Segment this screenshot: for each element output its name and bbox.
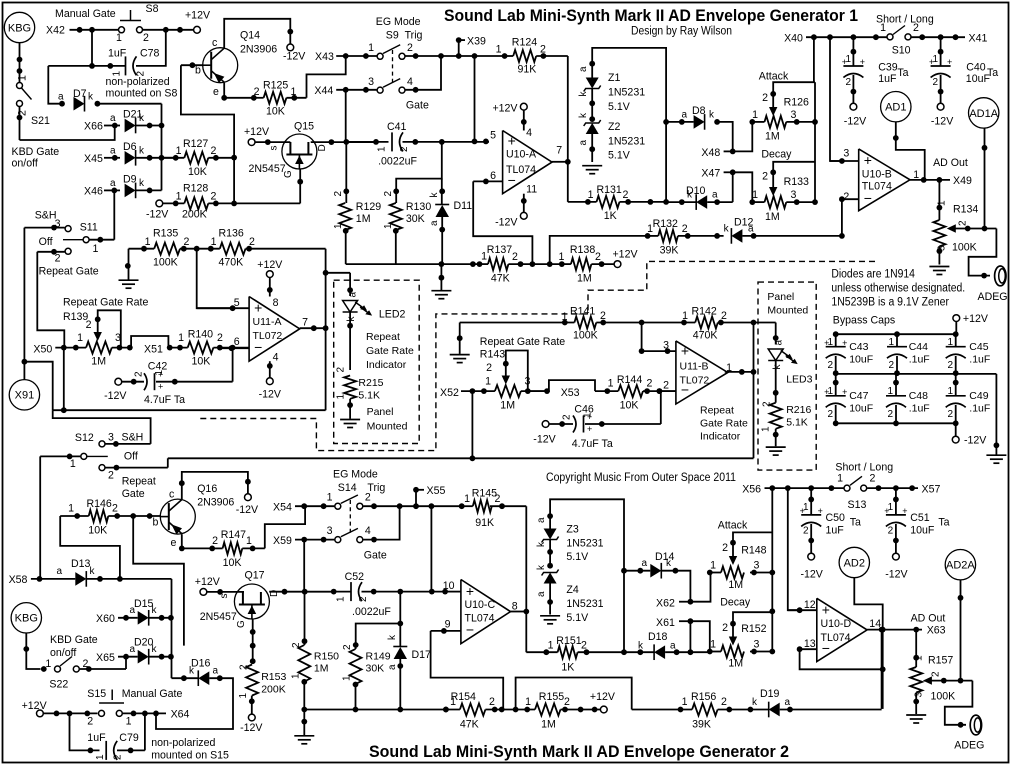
svg-text:Ta: Ta	[897, 67, 908, 79]
svg-text:+12V: +12V	[195, 576, 221, 588]
svg-text:non-polarized: non-polarized	[151, 737, 215, 749]
svg-text:100K: 100K	[931, 691, 956, 703]
wire Q14 collector to -12V	[224, 19, 290, 48]
capacitor C48 .1uF	[895, 374, 897, 396]
svg-text:R125: R125	[263, 80, 288, 92]
svg-text:1: 1	[95, 754, 106, 760]
svg-text:+: +	[254, 299, 262, 315]
capacitor C50 1uF Ta	[810, 488, 812, 515]
svg-text:KBG: KBG	[8, 22, 31, 34]
svg-text:ADEG: ADEG	[978, 291, 1008, 303]
svg-text:C40: C40	[966, 62, 986, 74]
svg-text:1N5231: 1N5231	[566, 538, 603, 550]
svg-text:+: +	[824, 387, 829, 397]
S9 dashed link	[392, 50, 394, 84]
capacitor C43 10uF	[835, 334, 837, 347]
svg-text:1M: 1M	[577, 272, 592, 284]
svg-text:Diodes are 1N914: Diodes are 1N914	[831, 269, 915, 281]
svg-text:2: 2	[358, 596, 369, 602]
svg-text:D17: D17	[412, 649, 432, 661]
svg-text:R157: R157	[928, 655, 953, 667]
svg-text:Copyright Music From Outer Spa: Copyright Music From Outer Space 2011	[546, 472, 736, 484]
svg-text:D6: D6	[123, 141, 137, 153]
svg-text:1: 1	[752, 109, 758, 121]
svg-text:AD2A: AD2A	[946, 560, 975, 572]
svg-text:D8: D8	[692, 105, 706, 117]
ground (R150 bus)	[294, 735, 314, 737]
svg-text:10K: 10K	[88, 525, 107, 537]
pin1 wire (U11-B)	[725, 371, 754, 373]
svg-text:X43: X43	[315, 51, 334, 63]
svg-text:+: +	[681, 342, 689, 358]
svg-text:R151: R151	[556, 635, 581, 647]
svg-text:R140: R140	[188, 329, 213, 341]
svg-text:1M: 1M	[728, 579, 743, 591]
svg-text:U10-C: U10-C	[465, 599, 496, 611]
svg-text:R131: R131	[597, 184, 622, 196]
terminal -12V (Q14)	[287, 44, 294, 51]
svg-text:7: 7	[556, 145, 562, 157]
svg-text:1: 1	[608, 378, 614, 390]
wire X43 net down to pin5	[474, 56, 476, 141]
wire R147 to X54 row	[265, 506, 305, 548]
resistor R141 100K	[459, 323, 461, 339]
svg-text:1M: 1M	[728, 658, 743, 670]
svg-text:Ta: Ta	[850, 517, 861, 529]
svg-text:+12V: +12V	[590, 691, 616, 703]
svg-text:R130: R130	[406, 201, 431, 213]
svg-text:+12V: +12V	[244, 126, 270, 138]
svg-text:AD1: AD1	[885, 102, 906, 114]
svg-text:1: 1	[548, 640, 554, 652]
svg-text:10uF: 10uF	[849, 354, 873, 366]
svg-text:C49: C49	[969, 390, 988, 402]
wire D8 k to X48	[717, 122, 733, 151]
wire X47 down to D10	[732, 172, 734, 202]
svg-text:X44: X44	[314, 85, 333, 97]
svg-text:3: 3	[791, 109, 797, 121]
switch S9 pole 3-4	[377, 87, 383, 93]
wire X40 down to attack rail	[813, 37, 815, 82]
svg-text:3: 3	[525, 376, 531, 388]
svg-text:1N5239B is a 9.1V Zener: 1N5239B is a 9.1V Zener	[831, 297, 949, 309]
wire R149 top bracket	[356, 624, 401, 646]
wire AD2 to output	[854, 578, 882, 709]
svg-text:2: 2	[254, 86, 260, 98]
svg-text:Off: Off	[124, 451, 138, 463]
svg-text:R215: R215	[358, 377, 383, 389]
wire Q16 collector to -12V	[182, 472, 248, 499]
svg-text:12: 12	[804, 599, 816, 611]
svg-text:10uF: 10uF	[910, 525, 935, 537]
svg-text:.1uF: .1uF	[969, 354, 990, 366]
svg-text:2: 2	[721, 696, 727, 708]
svg-text:-12V: -12V	[259, 389, 282, 401]
svg-text:Gate Rate: Gate Rate	[366, 345, 414, 357]
svg-text:2: 2	[112, 503, 118, 515]
jack ADEG (EG2)	[970, 715, 981, 735]
wire S12 S&H branch	[53, 410, 151, 444]
svg-text:4.7uF Ta: 4.7uF Ta	[144, 394, 185, 406]
node X39	[458, 40, 460, 56]
wire R135/R136 node to pin5 (U11-A)	[197, 249, 233, 309]
dashed panel path EG1	[200, 261, 875, 450]
svg-text:1: 1	[837, 473, 843, 485]
svg-text:X66: X66	[84, 121, 103, 133]
svg-text:R155: R155	[539, 691, 564, 703]
svg-text:1: 1	[336, 596, 347, 602]
svg-text:c: c	[169, 489, 175, 501]
wire S14 pin4 up to trig row	[363, 506, 399, 539]
switch S9 pole 1-2	[377, 53, 383, 59]
svg-text:1: 1	[880, 22, 886, 34]
svg-text:Short / Long: Short / Long	[835, 462, 893, 474]
svg-text:1: 1	[333, 223, 344, 229]
ground (R157)	[906, 714, 926, 716]
svg-text:S14: S14	[338, 482, 357, 494]
svg-text:X60: X60	[96, 613, 115, 625]
svg-text:39K: 39K	[660, 244, 679, 256]
svg-text:2: 2	[762, 92, 768, 104]
svg-text:X39: X39	[467, 35, 486, 47]
svg-text:1: 1	[558, 251, 564, 263]
svg-text:4: 4	[365, 525, 371, 537]
svg-text:C50: C50	[826, 512, 846, 524]
feedback row segment B (EG2)	[632, 709, 692, 711]
svg-text:C47: C47	[849, 390, 868, 402]
svg-text:.1uF: .1uF	[909, 403, 930, 415]
svg-text:Gate: Gate	[364, 550, 387, 562]
svg-text:C45: C45	[969, 341, 988, 353]
svg-text:X62: X62	[656, 598, 675, 610]
svg-text:2: 2	[762, 171, 768, 183]
svg-text:3: 3	[914, 692, 925, 698]
wire D7 k to cathode rail	[97, 103, 161, 105]
capacitor C40 10uF Ta	[940, 37, 942, 66]
svg-text:Panel: Panel	[367, 406, 394, 418]
wire S11 pin2 to X50	[37, 252, 64, 348]
wire to D7	[48, 66, 62, 104]
wire D16 to X64	[156, 678, 233, 729]
wire S22 pin2 to X65	[125, 657, 127, 669]
diode D16	[172, 677, 199, 679]
svg-text:Q17: Q17	[245, 570, 265, 582]
svg-text:S11: S11	[80, 222, 98, 234]
svg-text:.1uF: .1uF	[969, 403, 990, 415]
wire Q17 drain row	[269, 591, 334, 593]
svg-text:e: e	[213, 86, 219, 98]
svg-text:1: 1	[291, 673, 302, 679]
svg-text:2: 2	[647, 378, 653, 390]
svg-text:R135: R135	[153, 228, 178, 240]
svg-text:X55: X55	[427, 485, 446, 497]
wire C78 right to +12V net	[136, 30, 166, 66]
svg-text:a: a	[429, 220, 440, 226]
svg-text:1: 1	[176, 145, 182, 157]
svg-text:a: a	[536, 517, 547, 523]
svg-text:S15: S15	[87, 688, 106, 700]
bypass top rail	[836, 333, 956, 335]
svg-text:X54: X54	[273, 502, 292, 514]
svg-text:2: 2	[342, 644, 353, 650]
svg-text:10K: 10K	[188, 166, 207, 178]
svg-text:+12V: +12V	[613, 249, 639, 261]
svg-text:R137: R137	[487, 244, 512, 256]
svg-text:X65: X65	[96, 652, 115, 664]
svg-text:2: 2	[55, 253, 61, 265]
diode D19	[748, 707, 754, 713]
wire C78 left	[48, 65, 125, 67]
svg-text:3: 3	[115, 332, 121, 344]
svg-text:2: 2	[913, 22, 919, 34]
svg-text:5.1V: 5.1V	[566, 551, 589, 563]
wire KBG2 to S22	[26, 633, 40, 669]
svg-text:Q14: Q14	[240, 30, 260, 42]
svg-text:X63: X63	[927, 625, 946, 637]
svg-text:1: 1	[116, 32, 122, 44]
connector AD2	[839, 547, 869, 577]
svg-text:-12V: -12V	[283, 51, 306, 63]
transistor Q14 2N3906	[203, 48, 238, 83]
svg-text:30K: 30K	[406, 213, 425, 225]
svg-text:X48: X48	[701, 147, 720, 159]
svg-text:5.1V: 5.1V	[566, 612, 589, 624]
svg-text:a: a	[348, 292, 359, 298]
terminal -12V (bypass)	[955, 423, 957, 436]
pot R148 1M attack (EG2)	[733, 532, 772, 542]
svg-text:100K: 100K	[573, 330, 598, 342]
svg-text:Off: Off	[39, 236, 53, 248]
connector AD1	[881, 92, 911, 122]
svg-text:1: 1	[246, 535, 252, 547]
capacitor C44 .1uF	[896, 334, 898, 347]
svg-text:-12V: -12V	[495, 217, 518, 229]
wire attack/decay right rail (EG2)	[771, 488, 773, 651]
svg-text:1: 1	[327, 492, 333, 504]
svg-text:Gate Rate: Gate Rate	[700, 418, 748, 430]
wire S9 pin4 up to trig row	[406, 56, 442, 90]
svg-text:R128: R128	[183, 183, 208, 195]
wire Q15 drain row	[311, 141, 376, 143]
svg-text:10K: 10K	[192, 356, 211, 368]
svg-text:Manual Gate: Manual Gate	[55, 8, 116, 20]
svg-text:3: 3	[368, 76, 374, 88]
switch S10	[887, 34, 893, 40]
svg-text:KBD Gate: KBD Gate	[50, 634, 98, 646]
capacitor C51 10uF Ta	[895, 488, 897, 515]
svg-text:S8: S8	[146, 3, 159, 15]
svg-text:S13: S13	[848, 499, 867, 511]
capacitor C39 1uF Ta	[852, 37, 854, 66]
svg-text:10K: 10K	[223, 557, 242, 569]
svg-text:1: 1	[238, 693, 249, 699]
svg-text:X61: X61	[656, 617, 675, 629]
svg-text:EG Mode: EG Mode	[333, 469, 378, 481]
svg-text:a: a	[712, 190, 718, 201]
wire feedback to U10-B pin2	[839, 233, 845, 239]
svg-text:X57: X57	[922, 484, 941, 496]
svg-text:1: 1	[383, 223, 394, 229]
terminal +12V (bypass)	[953, 315, 960, 322]
svg-text:R132: R132	[653, 218, 678, 230]
svg-text:D16: D16	[191, 658, 211, 670]
svg-text:2: 2	[134, 371, 145, 377]
svg-text:U11-B: U11-B	[680, 361, 709, 373]
svg-text:D14: D14	[655, 551, 675, 563]
connector KBG (EG2)	[11, 603, 41, 633]
wire C79 to X64	[144, 713, 146, 750]
svg-text:s: s	[219, 594, 230, 599]
svg-text:.0022uF: .0022uF	[352, 606, 391, 618]
svg-text:2: 2	[143, 32, 149, 44]
svg-text:2: 2	[113, 754, 124, 760]
wire X56 row	[765, 487, 844, 489]
svg-text:1: 1	[914, 655, 925, 661]
svg-text:+: +	[158, 382, 163, 392]
svg-text:Ta: Ta	[938, 517, 949, 529]
capacitor C47 10uF	[835, 374, 837, 396]
wire drain row to C41	[346, 141, 388, 143]
svg-text:a: a	[774, 340, 785, 346]
wire S21 pin2 to X66 row	[19, 107, 21, 141]
wire X40 row	[806, 36, 887, 38]
svg-text:X51: X51	[144, 344, 163, 356]
wire zener top rail (EG2)	[550, 499, 624, 652]
svg-text:1M: 1M	[356, 213, 371, 225]
svg-text:1K: 1K	[604, 210, 617, 222]
svg-text:b: b	[195, 65, 201, 77]
svg-text:Repeat: Repeat	[700, 405, 734, 417]
svg-text:1: 1	[368, 42, 374, 54]
svg-text:4.7uF Ta: 4.7uF Ta	[572, 438, 613, 450]
svg-text:a: a	[110, 113, 116, 124]
ground (Z2)	[582, 165, 602, 167]
svg-text:39K: 39K	[692, 719, 711, 731]
svg-text:200K: 200K	[261, 684, 286, 696]
svg-text:D11: D11	[454, 200, 473, 212]
svg-text:R141: R141	[570, 306, 595, 318]
ground (bypass)	[986, 454, 1006, 456]
svg-text:1: 1	[481, 251, 487, 263]
wire R141/R142 node to pin3 (U11-B)	[642, 323, 676, 352]
svg-text:X41: X41	[969, 33, 988, 45]
svg-text:C39: C39	[878, 62, 898, 74]
wire X59 net vertical	[303, 540, 305, 592]
svg-text:U10-D: U10-D	[821, 618, 852, 630]
svg-text:+: +	[947, 57, 952, 67]
svg-text:1: 1	[70, 458, 76, 470]
svg-text:-12V: -12V	[104, 390, 127, 402]
svg-text:a: a	[110, 178, 116, 189]
svg-text:1: 1	[761, 426, 772, 432]
wire X62 jog to R148 pin1	[690, 573, 710, 602]
pot R134 100K vertical	[938, 180, 940, 220]
svg-text:a: a	[56, 566, 62, 577]
svg-text:1N5231: 1N5231	[608, 87, 645, 99]
svg-text:R149: R149	[366, 651, 391, 663]
dashed box LED3	[758, 282, 816, 470]
svg-text:Indicator: Indicator	[700, 431, 741, 443]
svg-text:3: 3	[327, 525, 333, 537]
svg-text:3: 3	[108, 432, 114, 444]
wire to ADEG jack (EG1)	[969, 229, 997, 276]
wire X42 down to C78	[91, 30, 93, 66]
zener Z1 1N5231	[589, 61, 595, 67]
svg-text:+12V: +12V	[492, 103, 518, 115]
svg-text:1K: 1K	[561, 662, 574, 674]
svg-text:1: 1	[583, 412, 594, 418]
svg-text:.0022uF: .0022uF	[378, 156, 417, 168]
wire LED2 branch	[326, 272, 351, 274]
svg-text:2: 2	[87, 716, 93, 728]
svg-text:C51: C51	[910, 512, 930, 524]
svg-text:10uF: 10uF	[849, 403, 873, 415]
wire R145 pin2 down rail	[525, 506, 527, 652]
zener Z2 1N5231	[589, 116, 595, 122]
svg-text:R156: R156	[691, 691, 716, 703]
svg-text:G: G	[236, 620, 247, 628]
svg-text:TL074: TL074	[465, 613, 495, 625]
svg-text:mounted on S8: mounted on S8	[106, 88, 178, 100]
wire X52 down to long line	[471, 391, 473, 458]
terminal -12V (R153)	[248, 714, 255, 721]
svg-text:1M: 1M	[765, 131, 780, 143]
svg-text:unless otherwise designated.: unless otherwise designated.	[831, 283, 965, 295]
svg-text:-12V: -12V	[236, 504, 259, 516]
svg-text:2: 2	[827, 409, 833, 420]
svg-text:2N3906: 2N3906	[240, 44, 277, 56]
svg-text:1: 1	[145, 236, 151, 248]
resistor R150 1M vertical	[304, 592, 306, 645]
svg-text:1: 1	[464, 493, 470, 505]
svg-text:R152: R152	[741, 623, 766, 635]
svg-text:1M: 1M	[541, 719, 556, 731]
svg-text:+12V: +12V	[963, 313, 989, 325]
svg-text:4: 4	[526, 127, 532, 139]
svg-text:e: e	[171, 537, 177, 549]
svg-text:1: 1	[496, 44, 502, 56]
svg-text:+: +	[822, 601, 830, 617]
svg-text:2: 2	[722, 622, 728, 634]
svg-text:1: 1	[710, 560, 716, 572]
svg-text:2: 2	[489, 696, 495, 708]
svg-text:2: 2	[383, 191, 394, 197]
svg-text:2: 2	[512, 251, 518, 263]
svg-text:mounted on S15: mounted on S15	[151, 750, 229, 762]
svg-text:+: +	[466, 583, 474, 599]
switch S8 pushbutton	[119, 27, 125, 33]
pin 9 feedback jog	[431, 631, 504, 709]
svg-text:2N5457: 2N5457	[249, 163, 286, 175]
svg-text:6: 6	[490, 170, 496, 182]
svg-text:S12: S12	[75, 432, 94, 444]
wire Q15 gate down to R128 node	[299, 169, 301, 203]
wire trig row to R124/X39	[441, 55, 505, 57]
svg-text:1: 1	[336, 394, 347, 400]
svg-text:a: a	[387, 664, 398, 670]
switch S13	[844, 485, 850, 491]
svg-text:470K: 470K	[219, 257, 244, 269]
wire Q17 gate down	[252, 619, 254, 661]
svg-text:1: 1	[126, 716, 132, 728]
svg-text:Sound Lab Mini-Synth Mark II A: Sound Lab Mini-Synth Mark II AD Envelope…	[369, 743, 789, 761]
wire R124 net vertical	[567, 56, 569, 202]
wire X44 down to drain row	[345, 90, 347, 142]
ground (R216)	[766, 446, 786, 448]
svg-text:b: b	[153, 517, 159, 529]
svg-text:Decay: Decay	[761, 149, 792, 161]
svg-text:30K: 30K	[366, 663, 385, 675]
